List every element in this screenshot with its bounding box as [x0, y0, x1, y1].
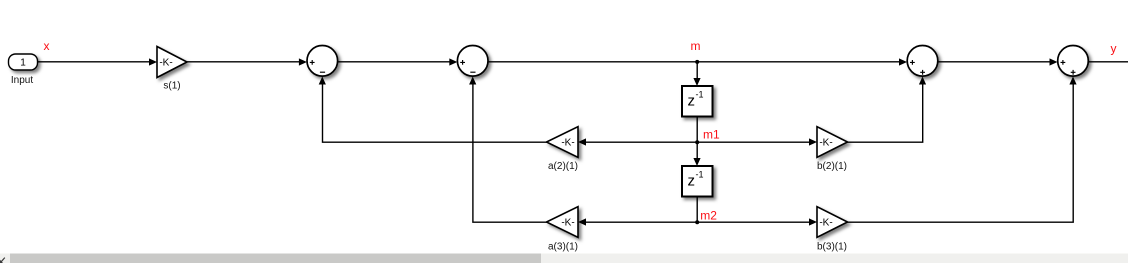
scrollbar track — [0, 254, 1128, 263]
arrowhead into sum4 bottom — [1069, 77, 1076, 85]
arrowhead into sum3 bottom — [919, 77, 926, 85]
wire: gain b(2)(1) output to sum3 bottom — [848, 84, 923, 143]
svg-text:-K-: -K- — [561, 138, 574, 149]
svg-text:x: x — [44, 39, 50, 53]
wire: node m1 to gain a(2)(1) — [585, 141, 698, 143]
svg-text:-K-: -K- — [819, 138, 832, 149]
wire: sum2 to sum3 through node m — [488, 61, 900, 63]
svg-text:-K-: -K- — [819, 218, 832, 229]
arrowhead into gain a(3)(1) — [578, 218, 586, 225]
svg-text:m: m — [691, 39, 701, 53]
wire: sum1 to sum2 — [338, 61, 451, 63]
svg-text:a(3)(1): a(3)(1) — [548, 242, 578, 253]
wire: node m1 to gain b(2)(1) — [697, 141, 811, 143]
node m1 junction dot — [695, 140, 699, 144]
arrowhead into gain b(2)(1) — [809, 138, 817, 145]
input port block Input — [9, 54, 38, 70]
svg-text:z: z — [688, 173, 696, 190]
svg-text:b(2)(1): b(2)(1) — [817, 161, 847, 172]
wire: sum3 to sum4 — [938, 61, 1051, 63]
sum3 — [907, 46, 938, 77]
wire: delay1 to node m1 — [696, 117, 698, 143]
arrowhead into sum3 — [899, 58, 907, 65]
gain b(3)(1) — [817, 207, 848, 238]
gain a(2)(1) — [547, 127, 579, 158]
wire: input to gain s(1) — [38, 61, 151, 63]
delay block z^-1 lower — [682, 166, 713, 197]
scrollbar thumb — [10, 254, 541, 263]
svg-text:z: z — [688, 93, 696, 110]
sum4 — [1058, 46, 1089, 77]
arrowhead into sum1 bottom — [319, 77, 326, 85]
wire: node m down to delay1 — [696, 62, 698, 80]
gain a(3)(1) — [547, 207, 579, 238]
wire: gain s(1) to sum1 — [187, 61, 301, 63]
wire: gain a(3)(1) output to sum2 bottom — [473, 84, 547, 223]
svg-text:a(2)(1): a(2)(1) — [548, 161, 578, 172]
arrowhead into gain a(2)(1) — [578, 138, 586, 145]
delay block z^-1 upper — [682, 86, 713, 117]
wire: delay2 to node m2 — [696, 197, 698, 223]
gain s(1) — [157, 47, 187, 78]
svg-text:-K-: -K- — [561, 218, 574, 229]
sum1 — [307, 46, 338, 77]
svg-text:-1: -1 — [696, 90, 704, 100]
wire: node m2 to gain a(3)(1) — [585, 221, 698, 223]
wire: node m2 to gain b(3)(1) — [697, 221, 811, 223]
wire: gain b(3)(1) output to sum4 bottom — [848, 84, 1074, 223]
svg-text:m2: m2 — [700, 209, 717, 223]
node m junction dot — [695, 60, 699, 64]
svg-text:-1: -1 — [696, 170, 704, 180]
arrowhead into delay1 — [693, 78, 700, 86]
svg-text:-K-: -K- — [159, 58, 172, 69]
sum2 — [457, 46, 488, 77]
arrowhead into sum2 — [449, 58, 457, 65]
svg-text:Input: Input — [11, 75, 33, 86]
arrowhead into gain b(3)(1) — [809, 218, 817, 225]
wire: node m1 down to delay2 — [696, 142, 698, 159]
svg-text:1: 1 — [20, 58, 26, 69]
arrowhead into sum1 — [299, 58, 307, 65]
gain b(2)(1) — [817, 127, 848, 158]
wire: gain a(2)(1) output to sum1 bottom — [323, 84, 547, 143]
svg-text:y: y — [1111, 42, 1117, 56]
arrowhead into sum4 — [1050, 58, 1058, 65]
arrowhead into delay2 — [693, 158, 700, 166]
svg-text:b(3)(1): b(3)(1) — [817, 242, 847, 253]
node m2 junction dot — [695, 220, 699, 224]
arrowhead into gain s(1) — [149, 58, 157, 65]
svg-text:s(1): s(1) — [163, 81, 180, 92]
svg-text:m1: m1 — [703, 128, 720, 142]
wire: sum4 to output y — [1089, 61, 1128, 63]
arrowhead into sum2 bottom — [469, 77, 476, 85]
corner resize glyph — [1, 258, 5, 263]
